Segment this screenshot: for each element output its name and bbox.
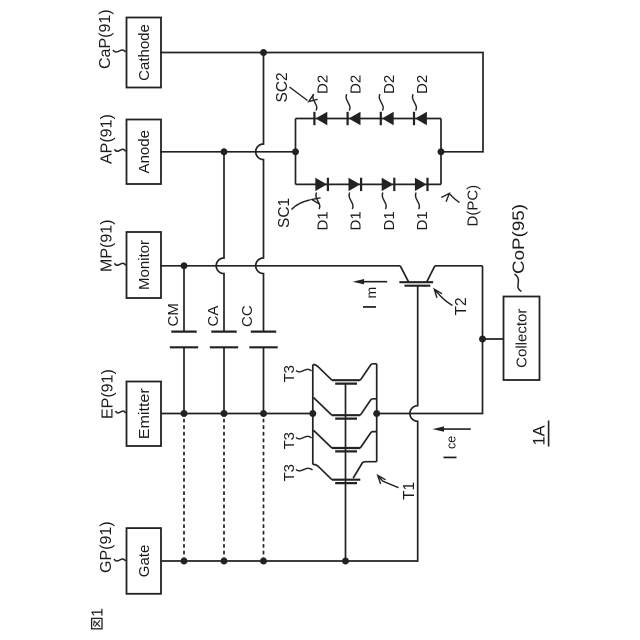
capacitor CA bbox=[210, 332, 238, 348]
wire bridge top rail bbox=[295, 119, 297, 185]
diode D1 #2 bbox=[349, 178, 362, 191]
svg-text:SC2: SC2 bbox=[274, 72, 291, 102]
junction emitter row2 bbox=[221, 410, 228, 417]
terminal box Gate bbox=[127, 528, 162, 594]
terminal box Cathode bbox=[127, 18, 162, 88]
diode D1 #1 bbox=[315, 178, 328, 191]
svg-text:Gate: Gate bbox=[136, 545, 153, 578]
svg-text:1A: 1A bbox=[531, 425, 549, 445]
label AP(91) bbox=[99, 114, 126, 164]
svg-text:I: I bbox=[440, 455, 461, 460]
junction monitor CM bbox=[181, 262, 188, 269]
wire monitor vertical lower (T2 emitter to collector bus bend) bbox=[435, 265, 483, 267]
svg-text:D1: D1 bbox=[348, 211, 365, 230]
capacitor CC wire with hops over monitor and anode bbox=[256, 53, 264, 414]
svg-text:D2: D2 bbox=[381, 75, 398, 94]
junction gate T1 bbox=[342, 558, 349, 565]
svg-text:T2: T2 bbox=[453, 297, 470, 315]
label D2 #3 bbox=[379, 75, 398, 111]
wire cathode vertical and return to diode stack bbox=[160, 53, 483, 152]
svg-text:Cathode: Cathode bbox=[136, 24, 153, 81]
junction gate row3 bbox=[260, 558, 267, 565]
wire emitter vertical bbox=[161, 413, 313, 415]
label GP(91) bbox=[98, 521, 126, 573]
diode D1 #3 bbox=[382, 178, 395, 191]
terminal box Collector bbox=[504, 297, 540, 381]
label D1 #4 bbox=[414, 193, 431, 231]
label EP(91) bbox=[100, 369, 126, 419]
svg-text:I: I bbox=[359, 304, 380, 309]
label D2 #4 bbox=[412, 75, 431, 111]
label T2 with arrow bbox=[434, 289, 470, 315]
svg-text:CA: CA bbox=[205, 306, 222, 327]
junction emitter row1 bbox=[181, 410, 188, 417]
junction gate row1 bbox=[181, 558, 188, 565]
svg-text:D(PC): D(PC) bbox=[465, 185, 482, 227]
dashed link row1 bbox=[183, 414, 185, 562]
label CoP(95) bbox=[509, 204, 528, 292]
capacitor CC bbox=[249, 332, 277, 348]
capacitor CM wire bbox=[183, 266, 185, 414]
terminal box Monitor bbox=[127, 232, 162, 298]
svg-text:T3: T3 bbox=[281, 365, 298, 383]
wire bridge bottom rail bbox=[440, 119, 442, 185]
label T3 b bbox=[281, 432, 312, 450]
IGBT T3 unit 3 of T1 bbox=[314, 430, 377, 451]
wire anode vertical bbox=[160, 151, 296, 153]
svg-text:D2: D2 bbox=[348, 75, 365, 94]
IGBT T3 unit 1 of T1 bbox=[313, 364, 377, 384]
IGBT T3 unit 4 of T1 bbox=[313, 462, 377, 483]
junction bridge bottom bbox=[438, 148, 445, 155]
diode D2 #3 bbox=[381, 112, 394, 125]
svg-text:1: 1 bbox=[90, 608, 107, 617]
wire T1 emitter bus bbox=[312, 365, 314, 465]
svg-text:Collector: Collector bbox=[514, 309, 531, 368]
junction anode CA bbox=[221, 148, 228, 155]
IGBT T3 unit 2 of T1 bbox=[314, 398, 377, 419]
wire T1 gate line bbox=[345, 384, 347, 561]
svg-text:D2: D2 bbox=[315, 75, 332, 94]
wire D1 chain bbox=[296, 183, 442, 185]
svg-text:EP(91): EP(91) bbox=[100, 369, 117, 419]
terminal box Emitter bbox=[127, 382, 162, 447]
wire T1 collector bus bbox=[376, 364, 378, 462]
junction emitter row3 bbox=[260, 410, 267, 417]
label SC1 with arrow bbox=[276, 198, 321, 228]
label T1 with arrow bbox=[378, 475, 418, 500]
label CaP(91) bbox=[97, 9, 126, 69]
svg-text:SC1: SC1 bbox=[276, 198, 293, 228]
svg-text:T3: T3 bbox=[281, 464, 298, 482]
label T3 a bbox=[281, 365, 312, 383]
svg-text:CoP(95): CoP(95) bbox=[509, 204, 528, 274]
capacitor CA wire with hop over monitor bbox=[216, 152, 224, 414]
junction anode bridge top bbox=[292, 148, 299, 155]
svg-text:CC: CC bbox=[239, 305, 256, 327]
junction gate row2 bbox=[221, 558, 228, 565]
wire collector path from T1 collector bus bbox=[377, 266, 483, 414]
svg-text:T1: T1 bbox=[401, 482, 418, 500]
svg-text:CaP(91): CaP(91) bbox=[97, 9, 114, 69]
wire collector box stub bbox=[483, 338, 504, 340]
label D2 #2 bbox=[346, 75, 365, 111]
dashed link row3 bbox=[263, 414, 265, 562]
diode D1 #4 bbox=[415, 178, 428, 191]
svg-text:Monitor: Monitor bbox=[136, 240, 153, 290]
svg-text:Emitter: Emitter bbox=[136, 388, 153, 439]
label D(PC) with arrow bbox=[441, 185, 481, 227]
current arrow Im bbox=[353, 279, 388, 310]
label D2 #1 bbox=[313, 75, 332, 111]
svg-text:D1: D1 bbox=[315, 211, 332, 230]
label D1 #1 bbox=[315, 193, 332, 231]
label Zu1 (figure 1) bbox=[90, 608, 107, 629]
junction collector stub bbox=[479, 336, 486, 343]
wire monitor vertical upper bbox=[160, 265, 400, 267]
wire gate vertical + T2 gate feed with hop bbox=[161, 286, 418, 561]
terminal box Anode bbox=[127, 120, 162, 185]
svg-text:ce: ce bbox=[445, 436, 459, 449]
junction cathode CC bbox=[260, 49, 267, 56]
svg-text:AP(91): AP(91) bbox=[99, 114, 116, 164]
label D1 #3 bbox=[381, 193, 398, 231]
label D1 #2 bbox=[348, 193, 365, 231]
diode D2 #4 bbox=[414, 112, 427, 125]
wire D2 chain bbox=[296, 118, 442, 120]
transistor T2 bbox=[399, 266, 435, 286]
diode D2 #2 bbox=[348, 112, 361, 125]
svg-text:Anode: Anode bbox=[136, 130, 153, 173]
junction collector bus bbox=[373, 410, 380, 417]
svg-text:CM: CM bbox=[165, 303, 182, 326]
whole schematic drawn in upright orientation, rotated 90deg CCW for display bbox=[90, 9, 549, 628]
label T3 c bbox=[281, 464, 313, 482]
label MP(91) bbox=[99, 220, 126, 272]
label SC2 with arrow bbox=[274, 72, 318, 102]
dashed link row2 bbox=[223, 414, 225, 562]
svg-text:MP(91): MP(91) bbox=[99, 220, 116, 272]
current arrow Ice bbox=[433, 426, 471, 460]
junction emitter bus bbox=[309, 410, 316, 417]
svg-text:D2: D2 bbox=[414, 75, 431, 94]
diode D2 #1 bbox=[314, 112, 327, 125]
svg-text:D1: D1 bbox=[381, 211, 398, 230]
svg-text:m: m bbox=[363, 287, 379, 299]
label 1A underlined bbox=[531, 421, 549, 447]
svg-text:D1: D1 bbox=[414, 211, 431, 230]
capacitor CM bbox=[170, 332, 198, 348]
svg-text:T3: T3 bbox=[281, 432, 298, 450]
svg-text:GP(91): GP(91) bbox=[98, 521, 115, 573]
